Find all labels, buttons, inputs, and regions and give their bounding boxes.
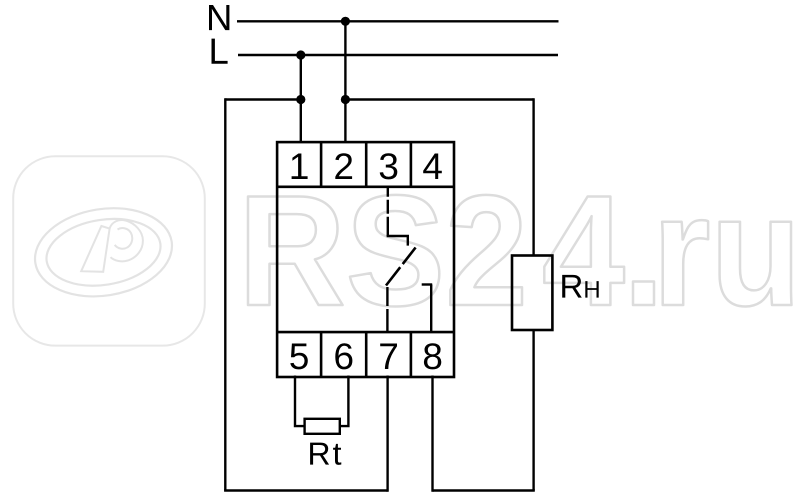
switch contact: fixed contact lead to pin 8: [430, 285, 432, 333]
wire from pin 5 to Rt: [295, 376, 305, 427]
label L: [212, 39, 228, 64]
pin 1: [292, 154, 308, 180]
label N: [209, 5, 229, 30]
switch contact: blade: [386, 248, 416, 286]
watermark logo badge: [13, 156, 205, 345]
watermark text RS24.ru: [248, 195, 792, 307]
label Rt: [310, 443, 341, 465]
pin 3: [380, 153, 398, 179]
relay body U1: [277, 142, 454, 377]
node junction bus right: [341, 95, 350, 104]
label RH: [562, 275, 599, 298]
wire from N junction to terminal 2: [344, 21, 346, 142]
pin 8: [424, 343, 441, 369]
terminal dividers bottom row: [321, 332, 411, 377]
pin 6: [335, 343, 352, 369]
pin 5: [290, 344, 308, 370]
wire bottom left: [224, 489, 388, 491]
wire to terminal 7: [386, 376, 388, 492]
node junction on L: [296, 50, 305, 59]
wire bottom right: [433, 489, 535, 491]
wire N line: [237, 20, 559, 22]
wire bus right segment: [345, 98, 533, 100]
wire RH bottom drop: [532, 330, 534, 491]
watermark logo P glyph: [81, 220, 143, 272]
wire to terminal 8: [431, 376, 433, 492]
switch contact: jog: [387, 236, 408, 246]
switch contact: fixed contact tick: [422, 283, 433, 285]
terminal row separator bottom: [277, 331, 454, 334]
wire from L junction to terminal 1: [300, 55, 302, 143]
switch contact: dashed lead from pin 3: [387, 187, 389, 236]
wire L line: [238, 54, 558, 56]
resistor RH: [512, 256, 552, 331]
wire from pin 6 to Rt: [340, 376, 349, 427]
wire right branch down to RH: [532, 98, 534, 255]
terminal row separator top: [277, 186, 454, 189]
resistor Rt: [305, 419, 340, 434]
watermark logo ellipses: [29, 199, 179, 306]
wire left outer drop: [224, 98, 226, 490]
wire bus left segment: [225, 98, 300, 100]
pin 4: [423, 154, 442, 180]
switch contact: dashed lead to pin 7: [386, 287, 388, 332]
pin 7: [380, 344, 397, 370]
node junction bus left: [296, 95, 305, 104]
pin 2: [335, 153, 352, 179]
terminal dividers top row: [321, 142, 411, 187]
node junction on N: [341, 17, 350, 26]
